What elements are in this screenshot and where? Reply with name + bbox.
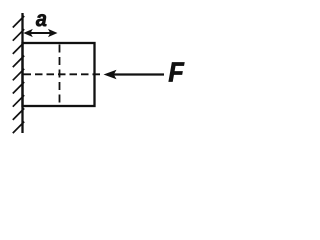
label a <box>36 14 46 26</box>
square plate <box>23 43 95 106</box>
label F <box>169 63 185 82</box>
dashed horizontal center line <box>24 73 103 75</box>
dimension arrow shaft <box>26 32 54 34</box>
force arrow shaft <box>112 73 164 75</box>
dimension arrowhead right <box>48 29 58 37</box>
dashed vertical center line <box>59 45 61 105</box>
wall line <box>21 13 23 133</box>
wall hatching <box>13 16 24 133</box>
dimension arrowhead left <box>23 29 33 37</box>
force arrowhead <box>104 70 117 79</box>
